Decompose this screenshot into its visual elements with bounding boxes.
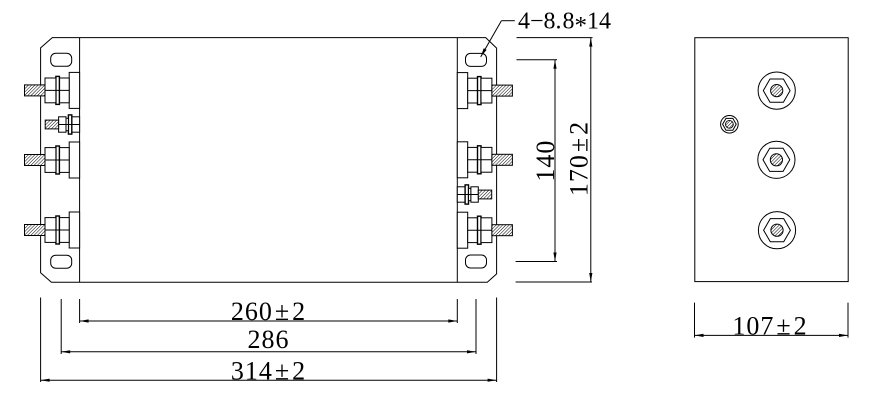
dimension 107±2 bbox=[695, 303, 849, 338]
mounting slot bottom-right bbox=[466, 255, 487, 268]
side terminal bottom bbox=[758, 212, 795, 249]
dimension 314±2 bbox=[41, 298, 497, 383]
mounting slot top-right bbox=[466, 53, 487, 66]
left terminal L2 (small) bbox=[45, 115, 79, 134]
left terminal L4 (large) bbox=[25, 212, 80, 248]
svg-text:286: 286 bbox=[248, 325, 290, 354]
body right edge bbox=[456, 38, 458, 283]
svg-text:107±2: 107±2 bbox=[732, 312, 807, 341]
right terminal R4 (large) bbox=[457, 212, 512, 248]
right terminal R2 (large) bbox=[457, 142, 512, 178]
svg-text:170±2: 170±2 bbox=[565, 121, 594, 196]
side small terminal bbox=[721, 116, 739, 134]
front view flange+body outline bbox=[41, 38, 497, 283]
leader line 4-8.8*14 bbox=[481, 21, 515, 57]
body left edge bbox=[79, 38, 81, 283]
dimension 260±2 bbox=[80, 299, 458, 323]
svg-text:4−8.8*14: 4−8.8*14 bbox=[518, 9, 611, 40]
side terminal top bbox=[758, 72, 795, 109]
mounting slot bottom-left bbox=[51, 255, 72, 268]
side terminal middle bbox=[758, 141, 795, 178]
svg-text:314±2: 314±2 bbox=[231, 357, 306, 386]
dimension 286 bbox=[61, 299, 476, 354]
right terminal R1 (large) bbox=[457, 73, 512, 109]
mounting slot top-left bbox=[51, 53, 72, 66]
svg-text:260±2: 260±2 bbox=[231, 297, 306, 326]
right terminal R3 (small) bbox=[457, 185, 491, 204]
dimension 140 bbox=[516, 60, 557, 262]
svg-text:140: 140 bbox=[531, 140, 560, 182]
side view outline bbox=[695, 38, 848, 282]
left terminal L3 (large) bbox=[25, 142, 80, 178]
dimension 170±2 bbox=[516, 38, 593, 282]
left terminal L1 (large) bbox=[25, 72, 80, 108]
